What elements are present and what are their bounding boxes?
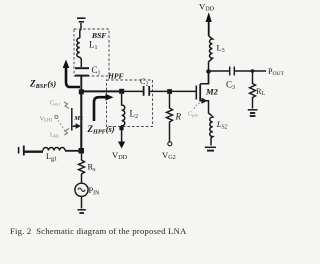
wire node A to input node (main vertical)	[80, 94, 82, 149]
wire C2 to node D	[149, 90, 169, 92]
junction L2 bottom	[119, 126, 123, 130]
wire node B to C2	[124, 90, 144, 92]
svg-text:R: R	[175, 112, 182, 122]
node A	[79, 89, 84, 94]
node E	[206, 69, 211, 74]
wire drain to node E	[208, 71, 210, 84]
ground under Pin	[78, 210, 86, 213]
svg-text:LH1: LH1	[50, 133, 59, 139]
terminal VG2	[168, 142, 172, 146]
wire node E to C3	[209, 70, 230, 72]
transistor M1 (gate bar)	[71, 108, 73, 131]
wire node A to node B	[81, 90, 120, 92]
M2 source arrow	[202, 98, 208, 104]
wire C1 to node A	[80, 76, 82, 92]
inductor Lg1	[43, 148, 65, 151]
ground under Ls2	[205, 147, 216, 150]
source Pin	[75, 183, 88, 196]
resistor R	[167, 94, 173, 142]
resistor Rs	[79, 153, 85, 183]
ground under RL	[248, 110, 258, 116]
wire L2 to VDD arrow	[121, 129, 123, 143]
transistor M2	[196, 74, 211, 116]
inductor L2	[122, 94, 125, 129]
wire C3 to POUT	[234, 70, 266, 72]
arrow Z_HPF(s)	[94, 97, 107, 121]
capacitor C3	[230, 67, 235, 76]
input node	[79, 148, 85, 154]
node B	[119, 89, 124, 94]
arrow Z_BSF(s)	[66, 66, 80, 87]
M1 source arrow	[73, 125, 77, 127]
inductor L3	[209, 36, 213, 70]
wire node D to M2 gate	[172, 90, 196, 92]
wire ground to BSF box	[80, 23, 81, 38]
BSF box (dashed)	[74, 29, 109, 76]
HPF box (dashed)	[107, 80, 153, 127]
annotation Cpar	[194, 103, 202, 110]
svg-text:HPF: HPF	[107, 71, 124, 80]
wire port to Lg1	[24, 150, 43, 152]
capacitor C2	[144, 86, 150, 96]
svg-text:M2: M2	[205, 87, 219, 97]
resistor RL	[250, 71, 256, 109]
wire Lg1 to input node	[65, 150, 80, 152]
wire Pin to ground	[81, 196, 83, 208]
svg-text:Cpar: Cpar	[188, 111, 198, 118]
junction RL	[251, 69, 255, 73]
svg-text:Fig. 2 Schematic diagram of t: Fig. 2 Schematic diagram of the proposed…	[10, 226, 187, 236]
capacitor C1	[75, 68, 89, 75]
VDD arrow (top)	[208, 20, 210, 36]
inductor L1	[77, 38, 82, 67]
svg-text:Cex1: Cex1	[50, 101, 61, 107]
svg-text:BSF: BSF	[91, 31, 106, 40]
ground (top left, above L1)	[77, 18, 86, 22]
input port	[18, 147, 20, 154]
node D	[167, 89, 172, 94]
annotation dashed line	[58, 120, 65, 131]
inductor Ls2	[210, 116, 213, 146]
